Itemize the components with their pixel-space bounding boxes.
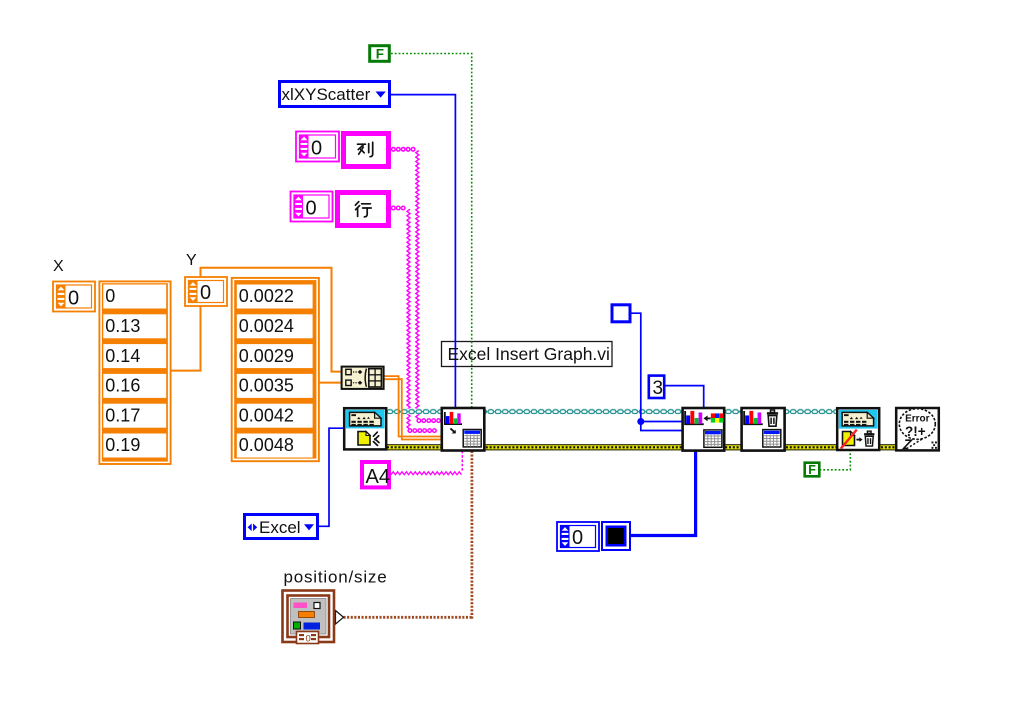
svg-text:0.14: 0.14 <box>105 346 140 366</box>
svg-text:X: X <box>53 258 64 275</box>
svg-text:0: 0 <box>105 286 115 306</box>
svg-text:0.0042: 0.0042 <box>239 405 294 425</box>
svg-text:Excel: Excel <box>259 518 301 537</box>
svg-text:0.0022: 0.0022 <box>239 286 294 306</box>
svg-text:0: 0 <box>200 282 211 304</box>
svg-text:0.0048: 0.0048 <box>239 435 294 455</box>
svg-text:Excel Insert Graph.vi: Excel Insert Graph.vi <box>448 344 610 364</box>
svg-text:xlXYScatter: xlXYScatter <box>282 85 371 104</box>
svg-text:0: 0 <box>572 527 583 549</box>
svg-text:F: F <box>376 47 384 62</box>
svg-text:0.0029: 0.0029 <box>239 346 294 366</box>
svg-text:Y: Y <box>186 252 197 269</box>
svg-text:0: 0 <box>306 634 311 645</box>
svg-text:position/size: position/size <box>284 568 388 587</box>
svg-text:F: F <box>808 463 816 477</box>
svg-text:0.17: 0.17 <box>105 405 140 425</box>
svg-text:?!+: ?!+ <box>905 424 926 439</box>
svg-text:0.19: 0.19 <box>105 435 140 455</box>
svg-text:0.16: 0.16 <box>105 376 140 396</box>
svg-text:3: 3 <box>653 378 664 399</box>
svg-text:0.13: 0.13 <box>105 316 140 336</box>
svg-text:0.0035: 0.0035 <box>239 376 294 396</box>
svg-text:0: 0 <box>68 288 79 310</box>
svg-text:A4: A4 <box>366 466 390 488</box>
svg-text:0: 0 <box>311 138 322 160</box>
svg-text:0: 0 <box>306 198 317 220</box>
svg-text:0.0024: 0.0024 <box>239 316 294 336</box>
